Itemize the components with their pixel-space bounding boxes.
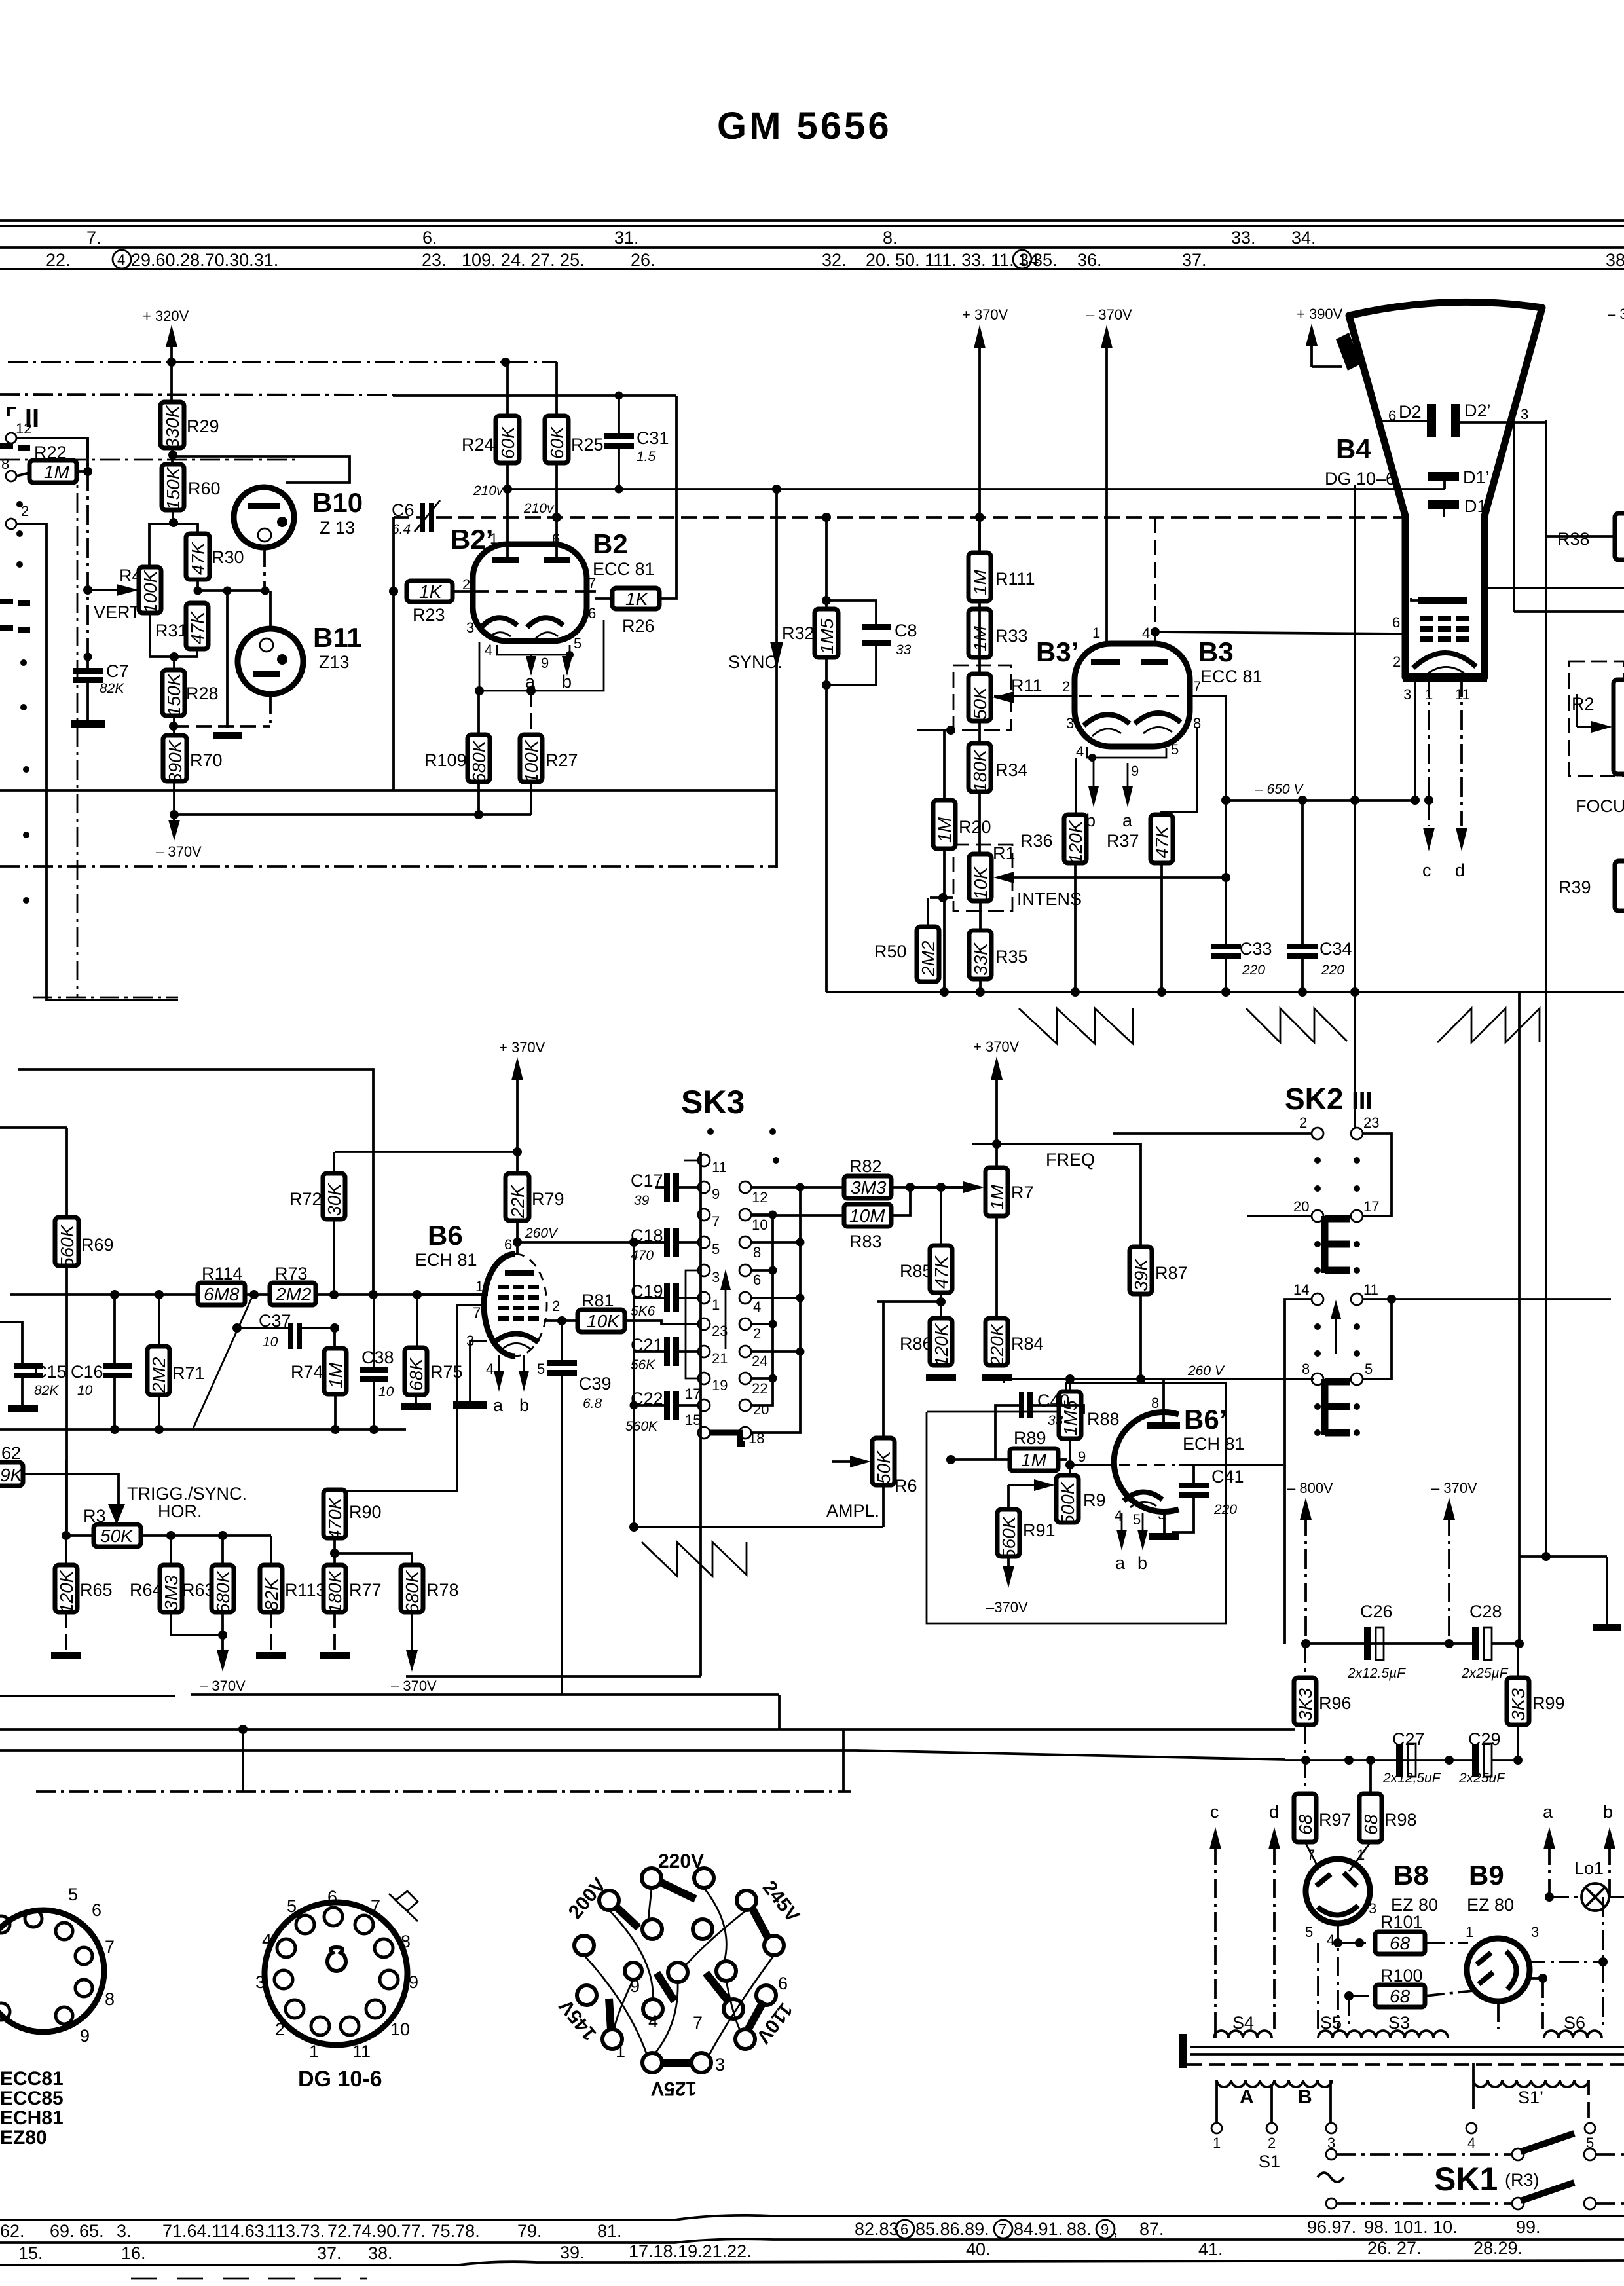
svg-text:113.73.: 113.73.: [267, 2221, 325, 2241]
node Lo1 left: [1545, 1892, 1554, 1902]
svg-text:R86: R86: [900, 1334, 932, 1354]
B6 envelope dashed right: [515, 1254, 547, 1356]
B3 anode bars: [1091, 659, 1168, 665]
wire y1977 seg3: [316, 1293, 488, 1296]
wire B8 cath down: [1337, 1923, 1339, 2030]
svg-text:22K: 22K: [507, 1185, 528, 1219]
svg-text:12: 12: [752, 1189, 767, 1206]
node bracket b3: [1088, 754, 1096, 762]
svg-text:11: 11: [1363, 1281, 1378, 1298]
svg-text:6: 6: [778, 1974, 788, 1993]
svg-text:B3: B3: [1198, 636, 1234, 667]
svg-text:D1’: D1’: [1463, 468, 1490, 487]
SK3 outer taps2: [751, 1297, 800, 1299]
switch pin 8: [6, 471, 16, 481]
CRT grid bar: [1418, 597, 1467, 604]
wire R32 top: [825, 517, 828, 609]
wire B6 pin3: [470, 1341, 487, 1401]
resistor R65: [55, 1565, 77, 1613]
svg-text:85.86.89.: 85.86.89.: [915, 2219, 989, 2239]
svg-text:7: 7: [1193, 678, 1201, 695]
node C29 out: [1513, 1756, 1522, 1765]
wire B9 right top: [1526, 1961, 1603, 1963]
ground B6 pin3: [453, 1401, 487, 1409]
svg-text:6: 6: [588, 605, 596, 621]
wire R89 in: [951, 1458, 1010, 1461]
svg-text:62: 62: [1, 1443, 21, 1463]
resistor R97: [1294, 1794, 1316, 1842]
CRT base thick: [1403, 673, 1487, 682]
B3 arrow b: [1088, 786, 1099, 807]
svg-text:R26: R26: [622, 616, 655, 636]
svg-text:26. 27.: 26. 27.: [1367, 2238, 1422, 2258]
SK1 row1: [1337, 2153, 1513, 2156]
bracket 11-5: [1362, 1299, 1392, 1379]
svg-text:3M3: 3M3: [851, 1177, 887, 1198]
node bottom left: [475, 686, 484, 695]
D1 bend wire: [1443, 509, 1445, 517]
node 1015,578: [501, 358, 510, 367]
svg-text:10: 10: [390, 2019, 410, 2039]
svg-text:680K: 680K: [402, 1570, 422, 1613]
B6 arrow b: [519, 1371, 529, 1392]
SK3 inner taps: [751, 1269, 773, 1272]
resistor R33: [969, 609, 991, 657]
svg-text:ECH 81: ECH 81: [1183, 1434, 1245, 1454]
svg-text:4: 4: [1467, 2135, 1475, 2151]
pot gang diagonal: [193, 1299, 251, 1428]
resistor R63: [212, 1565, 234, 1613]
wire R34: [978, 721, 981, 743]
R63 arrow -370: [217, 1650, 229, 1672]
resistor R69: [55, 1217, 79, 1268]
core terminal: [1179, 2034, 1187, 2068]
svg-text:47K: 47K: [188, 542, 208, 575]
svg-text:R70: R70: [190, 750, 223, 770]
core line dash: [1187, 2063, 1624, 2066]
wire C31: [618, 396, 620, 433]
B6' anode bar: [1147, 1422, 1180, 1429]
nodes y1977: [110, 1290, 422, 1299]
svg-text:22: 22: [752, 1380, 767, 1397]
wire pin2: [16, 524, 178, 1000]
svg-text:5: 5: [1365, 1361, 1373, 1377]
wire C40 right: [1033, 1405, 1084, 1414]
node grid: [1065, 1460, 1075, 1469]
svg-text:R31: R31: [155, 621, 188, 640]
SK3 pin11 stub: [684, 1160, 698, 1162]
svg-text:R72: R72: [289, 1189, 322, 1209]
capacitor C38: [360, 1367, 388, 1382]
wire 260V left drop: [1003, 1379, 1005, 1383]
R78 arrow -370: [406, 1650, 418, 1672]
wire S4 ends: [1214, 2029, 1217, 2038]
wire C15: [0, 1322, 22, 1363]
svg-text:R6: R6: [895, 1476, 917, 1496]
svg-text:R24: R24: [462, 435, 494, 454]
svg-text:11: 11: [712, 1159, 727, 1175]
tube B8: [1306, 1859, 1370, 1923]
svg-text:68: 68: [1361, 1814, 1381, 1835]
resistor R77: [323, 1565, 346, 1613]
lamp Lo1: [1581, 1883, 1609, 1911]
svg-text:15.: 15.: [18, 2243, 43, 2263]
svg-text:R88: R88: [1087, 1409, 1120, 1429]
B3 cathode arcs: [1084, 714, 1130, 726]
wire x1648: [1075, 758, 1077, 815]
rail x2361: [1545, 420, 1547, 1557]
svg-text:S4: S4: [1232, 2013, 1254, 2033]
capacitor C8: [862, 624, 891, 646]
wire R83 in: [751, 1214, 844, 1217]
svg-text:R30: R30: [212, 547, 244, 567]
R11 wiper arrow: [993, 691, 1014, 703]
svg-text:60K: 60K: [547, 426, 567, 459]
rotary link 125: [661, 2059, 693, 2067]
svg-text:HOR.: HOR.: [158, 1502, 202, 1521]
svg-text:R1: R1: [993, 843, 1016, 863]
wire B6 pin7: [335, 1305, 485, 1491]
node R85 bottom: [936, 1297, 946, 1306]
node R3 left: [62, 1531, 71, 1540]
wire R30 top: [149, 524, 198, 568]
wire R3 right: [141, 1534, 271, 1537]
SK3 inner taps2: [751, 1323, 773, 1325]
circled 9 bottom: [1096, 2220, 1115, 2238]
svg-text:36.: 36.: [1077, 250, 1102, 270]
svg-text:8: 8: [401, 1932, 411, 1951]
capacitor C37: [288, 1323, 302, 1349]
svg-text:6: 6: [327, 1887, 337, 1907]
top bus line 4: [0, 268, 1624, 270]
svg-text:41.: 41.: [1198, 2240, 1223, 2259]
svg-text:R90: R90: [349, 1502, 382, 1522]
tube B6 envelope: [484, 1254, 515, 1356]
svg-text:+ 370V: + 370V: [973, 1039, 1020, 1055]
svg-text:R73: R73: [275, 1264, 308, 1283]
SK3 right pins: [739, 1181, 751, 1439]
SK1 pivot2: [1512, 2198, 1524, 2209]
capacitor C27: [1396, 1744, 1416, 1777]
socket ECC81 pins: [0, 1910, 92, 2024]
wire D2' right: [1460, 421, 1546, 424]
wire B8 pin1: [1349, 1842, 1371, 1871]
ground R77: [320, 1652, 350, 1659]
svg-text:6: 6: [1392, 614, 1400, 631]
svg-text:6: 6: [504, 1236, 512, 1253]
svg-text:9K: 9K: [0, 1465, 24, 1485]
resistor R27: [520, 735, 542, 783]
svg-text:R34: R34: [995, 760, 1028, 780]
wire C41 bottom: [1172, 1498, 1194, 1532]
ground C15: [8, 1405, 38, 1412]
node C31 top: [615, 392, 623, 400]
svg-text:C27: C27: [1392, 1729, 1425, 1749]
resistor R82: [844, 1176, 891, 1198]
svg-text:6.: 6.: [422, 228, 437, 248]
svg-text:4: 4: [1142, 625, 1150, 641]
svg-text:R27: R27: [545, 750, 578, 770]
wire R4 bottom: [150, 613, 174, 657]
wire R87 bottom: [1139, 1294, 1142, 1379]
svg-text:1M: 1M: [1021, 1450, 1047, 1470]
CRT grid dash block: [1420, 616, 1469, 642]
wire R88 top: [1069, 1379, 1071, 1392]
svg-text:98. 101. 10.: 98. 101. 10.: [1364, 2217, 1458, 2237]
svg-text:+ 320V: + 320V: [143, 308, 189, 324]
svg-text:S1’: S1’: [1518, 2088, 1543, 2107]
svg-text:B11: B11: [313, 622, 362, 653]
svg-text:87.: 87.: [1139, 2219, 1164, 2239]
svg-text:220: 220: [1321, 963, 1344, 978]
wire C38: [373, 1295, 375, 1367]
wire -650V y1222: [1226, 799, 1415, 802]
svg-text:R22: R22: [34, 443, 67, 462]
rotary link mid2: [706, 1973, 728, 2001]
svg-text:R69: R69: [81, 1235, 114, 1255]
wire R70 bottom: [173, 781, 175, 815]
node R4 wiper: [83, 585, 92, 595]
wire R64 top: [170, 1536, 172, 1566]
svg-text:12: 12: [16, 420, 31, 437]
resistor R30: [186, 534, 210, 580]
svg-text:9: 9: [409, 1972, 418, 1992]
SK3 arrow: [720, 1269, 731, 1290]
svg-text:3M3: 3M3: [161, 1575, 181, 1611]
svg-text:R85: R85: [900, 1261, 932, 1281]
svg-text:47K: 47K: [931, 1255, 951, 1289]
node R109 bottom: [474, 810, 483, 819]
svg-text:– 650 V: – 650 V: [1255, 782, 1304, 797]
svg-text:560K: 560K: [999, 1515, 1019, 1559]
svg-text:3K3: 3K3: [1508, 1688, 1528, 1721]
svg-text:R50: R50: [874, 942, 907, 961]
wire B3 pin8 down: [1162, 727, 1197, 815]
rotary link 110: [748, 2001, 764, 2030]
wire R79 bottom: [516, 1221, 519, 1254]
pot R6: [872, 1438, 895, 1485]
ground R84: [982, 1374, 1012, 1381]
wire R69 bottom: [65, 1266, 68, 1536]
svg-text:2: 2: [753, 1325, 761, 1342]
svg-text:3: 3: [255, 1972, 265, 1992]
node AMPL: [629, 1522, 638, 1532]
B2 arrow b: [562, 656, 572, 676]
winding S1': [1473, 2080, 1589, 2087]
svg-text:R114: R114: [202, 1264, 243, 1283]
svg-text:R111: R111: [995, 569, 1035, 589]
wire 1033 drop to R26: [659, 396, 676, 599]
node R60 bottom: [169, 518, 178, 527]
svg-text:33: 33: [896, 642, 912, 657]
wire anode feed to B10: [173, 456, 350, 483]
svg-text:47K: 47K: [1152, 825, 1172, 858]
Lo1 cross: [1585, 1887, 1605, 1907]
svg-text:2x12.5µF: 2x12.5µF: [1347, 1666, 1406, 1681]
wire R24 bottom to 210v node: [506, 463, 509, 489]
svg-text:1: 1: [490, 530, 498, 547]
wire pin4 to CRT: [1155, 632, 1403, 634]
oscillator enclosure: [927, 1383, 1226, 1623]
svg-text:60K: 60K: [498, 426, 518, 459]
svg-text:R98: R98: [1384, 1810, 1417, 1830]
svg-text:2: 2: [552, 1298, 560, 1314]
wire C8 bottom: [826, 646, 876, 685]
resistor R89: [1010, 1448, 1058, 1471]
resistor R99: [1507, 1678, 1529, 1725]
-370V arrow left: [168, 820, 180, 841]
wire into pin2: [1113, 1132, 1312, 1135]
svg-text:R60: R60: [188, 479, 221, 498]
node c26 left: [1301, 1639, 1310, 1648]
wire AMPL: [634, 1526, 883, 1528]
svg-text:C29: C29: [1468, 1729, 1501, 1749]
svg-text:Z 13: Z 13: [320, 518, 355, 538]
resistor R98: [1359, 1794, 1382, 1842]
svg-text:11: 11: [352, 2042, 371, 2061]
svg-text:R75: R75: [430, 1362, 463, 1382]
pin S1-3: [1326, 2123, 1337, 2133]
winding S4: [1214, 2031, 1272, 2038]
dashed box R2x: [1569, 661, 1624, 776]
resistor R28: [162, 670, 185, 716]
wire C26 row: [1306, 1642, 1475, 1645]
svg-text:+ 370V: + 370V: [499, 1039, 545, 1056]
node R23 in: [389, 587, 398, 596]
node pin11: [1387, 1295, 1396, 1304]
wire left runner x134: [86, 438, 89, 657]
svg-text:9: 9: [1131, 763, 1139, 779]
svg-text:R83: R83: [849, 1232, 882, 1251]
svg-text:R87: R87: [1155, 1263, 1188, 1283]
svg-text:a: a: [1115, 1553, 1126, 1573]
svg-text:37.: 37.: [317, 2243, 342, 2263]
wire R99: [1517, 1644, 1519, 1678]
svg-text:82K: 82K: [261, 1577, 282, 1611]
svg-text:9: 9: [630, 1976, 640, 1996]
B8 inner arc: [1324, 1911, 1350, 1917]
node R89 in: [946, 1455, 955, 1464]
wire B6 pin1: [419, 1293, 488, 1296]
R91 arrow down: [1003, 1566, 1014, 1588]
CRT funnel outline: [1349, 302, 1542, 677]
wire B8 pin7: [1305, 1842, 1318, 1866]
wire pin11 down d: [1460, 677, 1463, 826]
resistor R34: [969, 743, 991, 792]
resistor R83: [844, 1204, 891, 1226]
svg-text:68: 68: [1295, 1814, 1316, 1835]
svg-text:C26: C26: [1360, 1602, 1393, 1621]
svg-text:2M2: 2M2: [149, 1357, 169, 1393]
resistor R74: [324, 1348, 346, 1394]
bottom row2 labels: [18, 2238, 1522, 2263]
svg-text:C31: C31: [637, 428, 669, 448]
wire pin11 right: [1362, 1298, 1611, 1300]
svg-text:3: 3: [1403, 686, 1411, 703]
top bus row2 labels: [46, 250, 1624, 270]
wire R37: [1160, 863, 1163, 992]
svg-text:72.74.90.77. 75.78.: 72.74.90.77. 75.78.: [327, 2221, 480, 2241]
svg-text:7: 7: [105, 1937, 115, 1957]
resistor R85: [930, 1245, 952, 1293]
svg-text:5: 5: [574, 635, 581, 652]
svg-text:S5: S5: [1320, 2013, 1342, 2033]
wire x858 bottom: [561, 1676, 563, 1695]
wire C7: [86, 657, 89, 668]
wire R88 bottom to grid: [1069, 1439, 1071, 1465]
svg-text:S6: S6: [1564, 2013, 1585, 2033]
node 210v a: [503, 485, 512, 494]
B10 cathode circle: [258, 528, 271, 542]
svg-text:8.: 8.: [883, 228, 898, 248]
svg-text:120K: 120K: [931, 1323, 951, 1367]
svg-text:560K: 560K: [625, 1419, 658, 1434]
svg-text:220K: 220K: [987, 1323, 1007, 1367]
wire R38 lead: [1546, 535, 1615, 538]
wire main y1977: [10, 1293, 198, 1296]
wire R32 bottom: [825, 657, 828, 992]
wire R27 top: [530, 691, 532, 735]
svg-text:D2’: D2’: [1464, 401, 1491, 420]
svg-text:4: 4: [753, 1299, 761, 1315]
svg-text:30K: 30K: [324, 1183, 344, 1216]
svg-text:R11: R11: [1011, 676, 1043, 695]
pot R2x box (cut): [1614, 680, 1624, 774]
wire B6' cathode gnd: [1163, 1513, 1166, 1533]
svg-text:22.: 22.: [46, 250, 71, 270]
wire D2' drop: [1513, 422, 1515, 612]
rotary link 245: [752, 1908, 767, 1937]
line y1633: [18, 1069, 373, 1295]
wire pin1 down c: [1428, 800, 1430, 826]
capacitor C16: [103, 1363, 132, 1378]
svg-text:Z13: Z13: [319, 652, 350, 672]
svg-text:1M5: 1M5: [817, 618, 837, 654]
resistor R114: [198, 1283, 245, 1305]
SK2 pin23: [1351, 1128, 1363, 1139]
svg-text:260 V: 260 V: [1187, 1363, 1225, 1378]
D2 plate bars: [1427, 404, 1460, 437]
svg-text:+ 390V: + 390V: [1297, 306, 1343, 322]
resistor R72: [323, 1173, 345, 1219]
wire C8 top: [826, 600, 876, 624]
svg-text:2: 2: [275, 2019, 285, 2039]
svg-text:96.97.: 96.97.: [1307, 2217, 1356, 2237]
bottom line 2: [0, 2239, 1624, 2243]
rotary link 220: [660, 1882, 695, 1899]
wire C22: [679, 1404, 698, 1407]
resistor R73: [270, 1283, 316, 1305]
svg-text:14: 14: [1293, 1281, 1309, 1298]
wire R109 top: [477, 691, 480, 735]
rotary circles: [574, 1868, 784, 2073]
B2 bracket box right: [479, 620, 604, 691]
wire R113 bottom: [270, 1612, 272, 1652]
svg-text:B8: B8: [1393, 1860, 1429, 1890]
socket ECC81 labels: [68, 1885, 115, 2046]
wire R72 bottom: [333, 1219, 335, 1295]
capacitor C40: [1019, 1392, 1033, 1418]
bracket 23-17: [1362, 1134, 1392, 1216]
svg-text:150K: 150K: [164, 673, 184, 716]
SK1 arm2: [1521, 2183, 1574, 2201]
wire pair y906: [1514, 610, 1624, 613]
resistor R113: [260, 1565, 282, 1612]
boundary dash x118: [77, 460, 79, 997]
svg-text:17: 17: [685, 1386, 701, 1402]
svg-text:82K: 82K: [34, 1383, 59, 1398]
node B8 out: [1333, 1938, 1342, 1947]
